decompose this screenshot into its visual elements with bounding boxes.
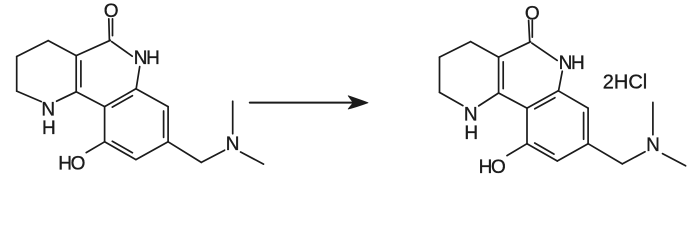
right molecule (dihydrochloride salt): bond C5-N6 (to amide NH) xyxy=(532,43,557,60)
svg-text:HO: HO xyxy=(58,154,84,175)
right molecule (dihydrochloride salt): bond C10-C10a (benzene left edge) xyxy=(526,108,528,144)
right molecule (dihydrochloride salt): bond N12-CH3 (methyl up) xyxy=(652,102,654,134)
left molecule (free base): bond C5=O line 1 xyxy=(108,19,111,40)
right molecule (dihydrochloride salt): bond N1-C10b (ring A) xyxy=(479,93,499,106)
right molecule (dihydrochloride salt): bond C8-C11 (CH2) xyxy=(588,144,622,164)
right molecule (dihydrochloride salt): bond N12-CH3 (methyl down-right) xyxy=(663,154,686,166)
right molecule (dihydrochloride salt): bond C4a-C5 (ring B) xyxy=(499,42,531,57)
left molecule (free base): bond C9=C10 main line (benzene, double) xyxy=(105,142,136,160)
left molecule (free base): bond N1-C10b (ring A) xyxy=(57,92,77,101)
right molecule (dihydrochloride salt): bond C9=C10 main line (benzene, double) xyxy=(527,144,557,161)
left molecule (free base): bond C4a-C4 (ring A) xyxy=(48,41,76,56)
right molecule (dihydrochloride salt): bond C4a-C4 (ring A) xyxy=(471,42,499,58)
right molecule (dihydrochloride salt): bond C6a-C7 (benzene) xyxy=(558,91,588,108)
svg-text:H: H xyxy=(42,118,56,139)
left molecule (free base): bond C8-C11 (CH2) xyxy=(168,142,201,163)
left molecule (free base): bond C11-N12 (CH2 to amine N) xyxy=(201,150,224,162)
svg-text:N: N xyxy=(646,135,660,156)
left molecule (free base): bond C8-C9 (benzene) xyxy=(136,142,168,160)
reaction arrow head xyxy=(348,96,368,109)
right molecule (dihydrochloride salt): bond C8-C9 (benzene) xyxy=(557,144,588,161)
svg-text:O: O xyxy=(104,1,119,22)
left molecule (free base): bond C4-C3 (ring A) xyxy=(17,41,49,57)
left molecule (free base): bond C5=O line 2 xyxy=(112,19,114,36)
left molecule (free base): bond C10b=C4a main line (ring A/B shared, double) xyxy=(75,56,77,92)
right molecule (dihydrochloride salt): bond C10b=C4a main line (ring A/B shared, double) xyxy=(498,57,500,93)
left molecule (free base): bond N6-C6a xyxy=(136,67,139,88)
left molecule (free base): bond N12-CH3 (methyl down-right) xyxy=(241,152,264,164)
left molecule (free base): bond C6a=C10a inner line xyxy=(112,96,132,107)
left molecule (free base): bond C7=C8 inner line xyxy=(163,111,165,137)
svg-text:NH: NH xyxy=(559,53,584,74)
right molecule (dihydrochloride salt): bond C4-C3 (ring A) xyxy=(440,42,471,58)
right molecule (dihydrochloride salt): bond C5=O line 2 xyxy=(531,20,533,37)
right molecule (dihydrochloride salt): bond C10-OH (to hydroxyl) xyxy=(507,144,527,156)
right molecule (dihydrochloride salt): bond C7=C8 main line (benzene right edge, double) xyxy=(587,108,589,144)
left molecule (free base): bond C5-N6 (to amide NH) xyxy=(112,42,133,57)
svg-text:2HCl: 2HCl xyxy=(603,72,647,94)
right molecule (dihydrochloride salt): bond C9=C10 inner line xyxy=(535,143,554,154)
right molecule (dihydrochloride salt): bond C7=C8 inner line xyxy=(583,113,585,140)
svg-text:O: O xyxy=(525,3,540,24)
left molecule (free base): bond C6a-C7 (benzene) xyxy=(136,89,168,107)
right molecule (dihydrochloride salt): bond C3-C2 (ring A left edge) xyxy=(439,57,441,92)
left molecule (free base): bond N12-CH3 (methyl up) xyxy=(232,101,234,134)
right molecule (dihydrochloride salt): bond C2-N1 (ring A) xyxy=(440,92,463,105)
left molecule (free base): bond C10-OH (to hydroxyl) xyxy=(86,142,104,153)
svg-text:N: N xyxy=(226,134,240,155)
right molecule (dihydrochloride salt): bond C10b=C4a inner line xyxy=(502,62,504,89)
left molecule (free base): bond C9=C10 inner line xyxy=(112,141,132,152)
left molecule (free base): bond C10a-C10b (ring B) xyxy=(76,92,104,107)
right molecule (dihydrochloride salt): bond C5=O line 1 xyxy=(529,20,530,41)
right molecule (dihydrochloride salt): bond C6a=C10a inner line xyxy=(535,98,555,109)
right molecule (dihydrochloride salt): bond C11-N12 (CH2 to amine N) xyxy=(622,152,645,164)
left molecule (free base): bond C4a-C5 (ring B) xyxy=(76,40,110,55)
right molecule (dihydrochloride salt): bond N6-C6a xyxy=(559,71,563,90)
right molecule (dihydrochloride salt): bond C6a=C10a main line (ring B/C shared, double) xyxy=(527,91,558,108)
left molecule (free base): bond C2-N1 (ring A) xyxy=(17,91,42,102)
right molecule (dihydrochloride salt): bond C10a-C10b (ring B) xyxy=(499,93,527,108)
left molecule (free base): bond C6a=C10a main line (ring B/C shared, double) xyxy=(105,89,136,107)
svg-text:NH: NH xyxy=(134,48,159,69)
left molecule (free base): bond C7=C8 main line (benzene right edge, double) xyxy=(167,107,169,142)
left molecule (free base): bond C3-C2 (ring A left edge) xyxy=(16,57,18,92)
left molecule (free base): bond C10b=C4a inner line xyxy=(80,61,82,87)
svg-text:HO: HO xyxy=(479,157,505,178)
reaction arrow shaft xyxy=(250,102,354,104)
left molecule (free base): bond C10-C10a (benzene left edge) xyxy=(104,107,106,142)
svg-text:H: H xyxy=(464,123,478,144)
